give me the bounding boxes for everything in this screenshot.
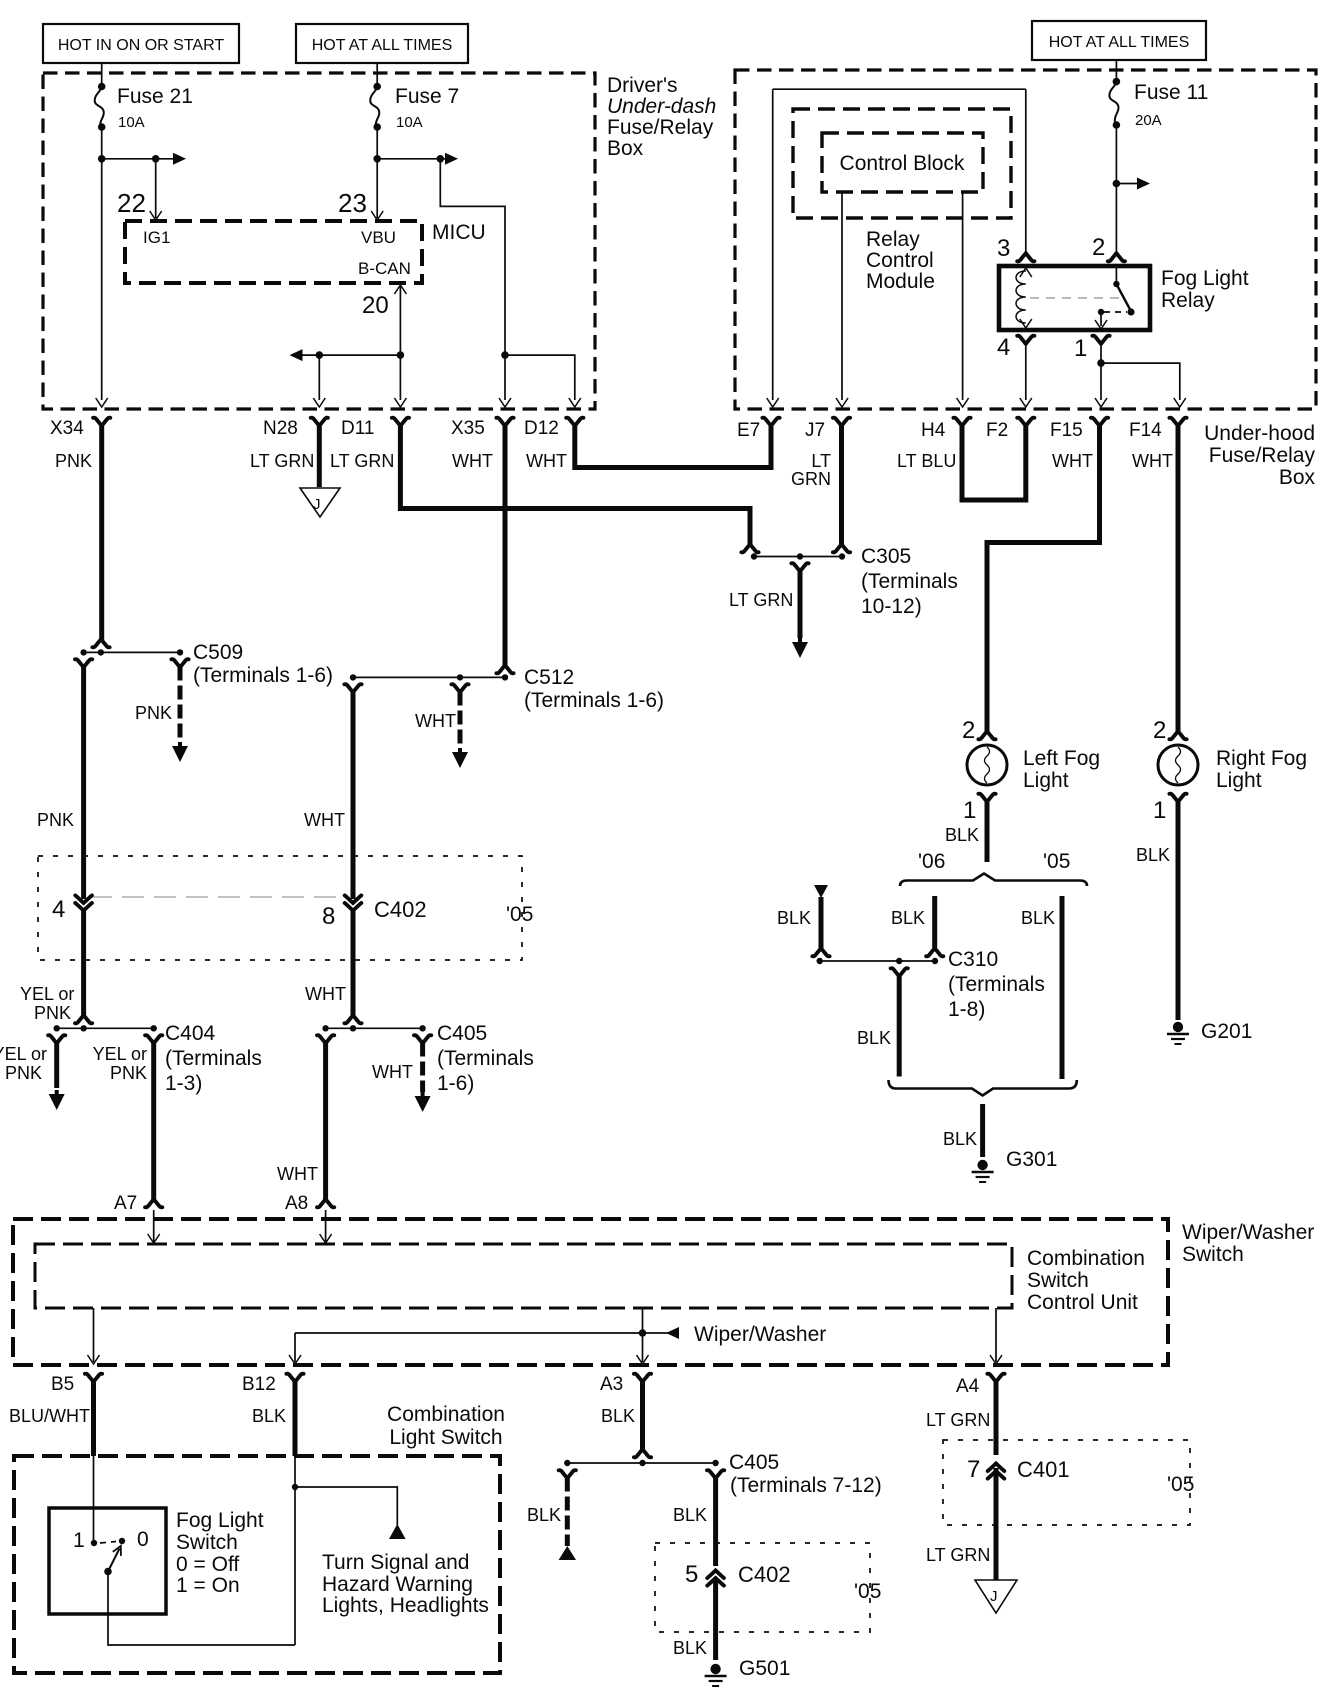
svg-text:10A: 10A bbox=[396, 114, 423, 131]
svg-text:BLK: BLK bbox=[945, 825, 979, 845]
svg-text:BLK: BLK bbox=[943, 1129, 977, 1149]
svg-text:Control: Control bbox=[866, 249, 934, 272]
svg-text:1: 1 bbox=[1153, 797, 1166, 824]
svg-text:PNK: PNK bbox=[55, 451, 92, 471]
svg-text:(Terminals: (Terminals bbox=[861, 570, 958, 593]
svg-text:Control Block: Control Block bbox=[840, 152, 965, 175]
svg-text:C401: C401 bbox=[1017, 1457, 1070, 1482]
svg-text:WHT: WHT bbox=[1132, 451, 1173, 471]
svg-text:YEL or: YEL or bbox=[20, 984, 74, 1004]
svg-text:B12: B12 bbox=[242, 1374, 276, 1395]
svg-text:G301: G301 bbox=[1006, 1148, 1057, 1171]
svg-text:Right Fog: Right Fog bbox=[1216, 747, 1307, 770]
svg-text:HOT IN ON OR START: HOT IN ON OR START bbox=[58, 37, 224, 54]
svg-text:1: 1 bbox=[963, 797, 976, 824]
svg-text:C402: C402 bbox=[738, 1562, 791, 1587]
svg-text:D11: D11 bbox=[341, 418, 374, 439]
svg-text:Wiper/Washer: Wiper/Washer bbox=[694, 1323, 826, 1346]
svg-text:PNK: PNK bbox=[110, 1063, 147, 1083]
svg-text:2: 2 bbox=[962, 717, 975, 744]
svg-text:8: 8 bbox=[322, 903, 335, 930]
svg-text:'05: '05 bbox=[1043, 850, 1070, 873]
svg-text:Fog Light: Fog Light bbox=[1161, 267, 1249, 290]
svg-text:'05: '05 bbox=[854, 1580, 881, 1603]
svg-text:A3: A3 bbox=[600, 1374, 623, 1395]
svg-text:J: J bbox=[313, 496, 321, 513]
svg-text:Switch: Switch bbox=[1027, 1269, 1089, 1292]
svg-text:(Terminals 1-6): (Terminals 1-6) bbox=[524, 689, 664, 712]
svg-text:C509: C509 bbox=[193, 641, 243, 664]
svg-text:1: 1 bbox=[1074, 335, 1087, 362]
svg-text:Control Unit: Control Unit bbox=[1027, 1291, 1138, 1314]
svg-text:H4: H4 bbox=[921, 420, 946, 441]
svg-text:A7: A7 bbox=[114, 1193, 137, 1214]
svg-text:F14: F14 bbox=[1129, 420, 1162, 441]
svg-text:(Terminals 1-6): (Terminals 1-6) bbox=[193, 664, 333, 687]
svg-text:BLK: BLK bbox=[673, 1505, 707, 1525]
svg-text:BLK: BLK bbox=[777, 908, 811, 928]
svg-text:1: 1 bbox=[73, 1529, 85, 1552]
svg-text:Switch: Switch bbox=[176, 1531, 238, 1554]
svg-text:C405: C405 bbox=[729, 1451, 779, 1474]
svg-text:20: 20 bbox=[362, 292, 389, 319]
svg-text:C305: C305 bbox=[861, 545, 911, 568]
svg-text:'05: '05 bbox=[1167, 1473, 1194, 1496]
svg-text:YEL or: YEL or bbox=[0, 1044, 47, 1064]
svg-text:VBU: VBU bbox=[361, 228, 396, 247]
svg-text:BLK: BLK bbox=[601, 1406, 635, 1426]
svg-text:Box: Box bbox=[1279, 466, 1316, 489]
svg-text:4: 4 bbox=[52, 896, 65, 923]
svg-text:10A: 10A bbox=[118, 114, 145, 131]
svg-text:7: 7 bbox=[967, 1456, 980, 1483]
svg-text:(Terminals: (Terminals bbox=[165, 1047, 262, 1070]
svg-text:Light: Light bbox=[1216, 769, 1262, 792]
svg-text:C404: C404 bbox=[165, 1022, 216, 1045]
svg-text:BLK: BLK bbox=[673, 1638, 707, 1658]
svg-text:BLK: BLK bbox=[252, 1406, 286, 1426]
svg-text:Hazard Warning: Hazard Warning bbox=[322, 1573, 473, 1596]
svg-text:5: 5 bbox=[685, 1561, 698, 1588]
svg-text:BLK: BLK bbox=[1021, 908, 1055, 928]
svg-text:(Terminals: (Terminals bbox=[948, 973, 1045, 996]
svg-text:LT GRN: LT GRN bbox=[729, 590, 793, 610]
svg-text:IG1: IG1 bbox=[143, 228, 170, 247]
svg-text:WHT: WHT bbox=[526, 451, 567, 471]
svg-text:YEL or: YEL or bbox=[93, 1044, 147, 1064]
svg-text:B-CAN: B-CAN bbox=[358, 259, 411, 278]
svg-text:0 = Off: 0 = Off bbox=[176, 1553, 239, 1576]
svg-text:Wiper/Washer: Wiper/Washer bbox=[1182, 1221, 1314, 1244]
svg-text:Combination: Combination bbox=[387, 1403, 505, 1426]
svg-text:LT GRN: LT GRN bbox=[926, 1410, 990, 1430]
svg-text:3: 3 bbox=[997, 235, 1010, 262]
svg-text:1 = On: 1 = On bbox=[176, 1574, 240, 1597]
svg-text:WHT: WHT bbox=[415, 711, 456, 731]
svg-text:F2: F2 bbox=[986, 420, 1008, 441]
svg-text:Fuse 11: Fuse 11 bbox=[1134, 81, 1208, 104]
svg-text:Light Switch: Light Switch bbox=[389, 1426, 502, 1449]
svg-text:C310: C310 bbox=[948, 948, 998, 971]
svg-text:N28: N28 bbox=[263, 418, 298, 439]
svg-text:D12: D12 bbox=[524, 418, 559, 439]
svg-text:BLU/WHT: BLU/WHT bbox=[9, 1406, 90, 1426]
svg-text:Relay: Relay bbox=[1161, 289, 1215, 312]
svg-text:LT GRN: LT GRN bbox=[926, 1545, 990, 1565]
svg-text:1-6): 1-6) bbox=[437, 1072, 474, 1095]
svg-text:1-3): 1-3) bbox=[165, 1072, 202, 1095]
svg-text:2: 2 bbox=[1092, 234, 1105, 261]
svg-text:C405: C405 bbox=[437, 1022, 487, 1045]
svg-text:HOT AT ALL TIMES: HOT AT ALL TIMES bbox=[1049, 34, 1190, 51]
svg-text:MICU: MICU bbox=[432, 221, 486, 244]
svg-text:HOT AT ALL TIMES: HOT AT ALL TIMES bbox=[312, 37, 453, 54]
svg-text:C402: C402 bbox=[374, 897, 427, 922]
svg-text:J7: J7 bbox=[805, 420, 825, 441]
svg-text:Left Fog: Left Fog bbox=[1023, 747, 1100, 770]
svg-text:Combination: Combination bbox=[1027, 1247, 1145, 1270]
svg-text:BLK: BLK bbox=[1136, 845, 1170, 865]
svg-text:PNK: PNK bbox=[5, 1063, 42, 1083]
svg-text:A4: A4 bbox=[956, 1376, 980, 1397]
svg-text:'05: '05 bbox=[506, 903, 533, 926]
svg-text:Fog Light: Fog Light bbox=[176, 1509, 264, 1532]
svg-text:PNK: PNK bbox=[135, 703, 172, 723]
svg-text:X34: X34 bbox=[50, 418, 84, 439]
svg-text:WHT: WHT bbox=[305, 984, 346, 1004]
svg-text:WHT: WHT bbox=[452, 451, 493, 471]
svg-text:X35: X35 bbox=[451, 418, 485, 439]
svg-text:1-8): 1-8) bbox=[948, 998, 985, 1021]
svg-text:J: J bbox=[990, 1588, 998, 1605]
svg-text:BLK: BLK bbox=[857, 1028, 891, 1048]
svg-text:PNK: PNK bbox=[34, 1003, 71, 1023]
svg-text:Module: Module bbox=[866, 270, 935, 293]
svg-text:WHT: WHT bbox=[372, 1062, 413, 1082]
svg-text:B5: B5 bbox=[51, 1374, 74, 1395]
svg-text:WHT: WHT bbox=[304, 810, 345, 830]
svg-text:23: 23 bbox=[338, 188, 367, 218]
svg-text:'06: '06 bbox=[918, 850, 945, 873]
svg-text:G501: G501 bbox=[739, 1657, 790, 1680]
svg-text:E7: E7 bbox=[737, 420, 760, 441]
svg-text:G201: G201 bbox=[1201, 1020, 1252, 1043]
svg-text:WHT: WHT bbox=[1052, 451, 1093, 471]
svg-text:LT GRN: LT GRN bbox=[250, 451, 314, 471]
svg-text:Box: Box bbox=[607, 137, 644, 160]
svg-text:(Terminals 7-12): (Terminals 7-12) bbox=[730, 1474, 882, 1497]
svg-text:LT GRN: LT GRN bbox=[330, 451, 394, 471]
svg-text:Fuse 7: Fuse 7 bbox=[395, 85, 459, 108]
svg-text:Lights, Headlights: Lights, Headlights bbox=[322, 1594, 489, 1617]
svg-text:(Terminals: (Terminals bbox=[437, 1047, 534, 1070]
svg-text:C512: C512 bbox=[524, 666, 574, 689]
svg-text:Relay: Relay bbox=[866, 228, 920, 251]
svg-text:Under-dash: Under-dash bbox=[607, 95, 716, 118]
svg-text:Turn Signal and: Turn Signal and bbox=[322, 1551, 469, 1574]
svg-text:Fuse/Relay: Fuse/Relay bbox=[1209, 444, 1316, 467]
svg-text:0: 0 bbox=[137, 1528, 149, 1551]
svg-text:Switch: Switch bbox=[1182, 1243, 1244, 1266]
svg-text:GRN: GRN bbox=[791, 469, 831, 489]
svg-text:20A: 20A bbox=[1135, 112, 1162, 129]
svg-text:A8: A8 bbox=[285, 1193, 308, 1214]
svg-text:PNK: PNK bbox=[37, 810, 74, 830]
svg-text:Under-hood: Under-hood bbox=[1204, 422, 1315, 445]
svg-text:10-12): 10-12) bbox=[861, 595, 922, 618]
svg-text:F15: F15 bbox=[1050, 420, 1083, 441]
svg-text:Driver's: Driver's bbox=[607, 74, 678, 97]
svg-text:2: 2 bbox=[1153, 717, 1166, 744]
svg-text:BLK: BLK bbox=[891, 908, 925, 928]
svg-text:LT BLU: LT BLU bbox=[897, 451, 956, 471]
svg-text:LT: LT bbox=[811, 451, 831, 471]
svg-text:Light: Light bbox=[1023, 769, 1069, 792]
svg-text:BLK: BLK bbox=[527, 1505, 561, 1525]
svg-text:22: 22 bbox=[117, 188, 146, 218]
svg-text:Fuse/Relay: Fuse/Relay bbox=[607, 116, 714, 139]
svg-text:4: 4 bbox=[997, 334, 1010, 361]
svg-text:WHT: WHT bbox=[277, 1164, 318, 1184]
svg-text:Fuse 21: Fuse 21 bbox=[117, 85, 193, 108]
